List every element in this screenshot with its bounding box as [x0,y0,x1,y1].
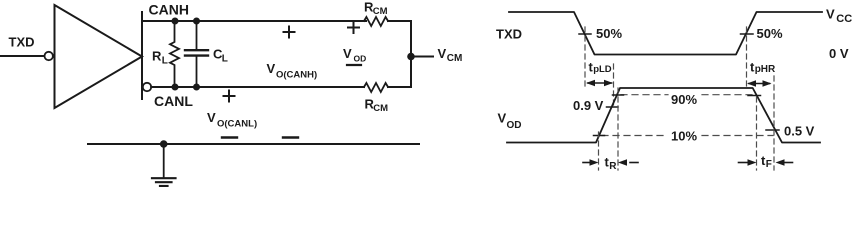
svg-text:OD: OD [507,120,522,131]
arrow t_pLD [586,80,613,86]
svg-text:90%: 90% [671,92,697,107]
dashed vertical fall 0.5V/10% [773,76,775,170]
capacitor CL [196,21,198,50]
wire CANL [151,86,364,88]
plus sign V_OD [348,22,359,33]
svg-text:pHR: pHR [755,64,776,75]
plus sign V_O(CANL) [224,91,235,102]
dashed vertical fall 90% [756,97,758,170]
svg-text:CC: CC [836,13,852,25]
CANL inversion bubble [143,83,151,91]
arrow t_F right [776,159,793,165]
svg-text:0.9 V: 0.9 V [573,98,604,113]
TXD waveform [509,12,822,55]
svg-text:R: R [152,49,162,64]
svg-text:L: L [222,54,228,65]
plus sign V_O(CANH) [284,27,295,38]
dashed vertical TXD fall 50% [584,27,586,88]
wire CANH right of RCM [388,20,411,22]
svg-text:V: V [267,61,276,76]
svg-text:R: R [609,161,617,172]
svg-text:0 V: 0 V [829,46,849,61]
wire CANL right of RCM [388,86,411,88]
junction CL bottom [193,84,200,91]
svg-text:OD: OD [354,54,367,64]
ground [152,178,176,186]
dashed 90% line [621,94,668,96]
svg-text:CM: CM [373,103,388,114]
arrow t_pHR [747,80,772,86]
svg-text:0.5 V: 0.5 V [784,124,815,139]
resistor RCM bottom [364,83,388,92]
svg-text:O(CANL): O(CANL) [217,119,257,130]
tick fall 90% [748,95,761,97]
dashed vertical rise 10% [598,132,600,170]
junction VCM node [407,53,415,61]
svg-text:10%: 10% [671,129,697,144]
V_OD waveform [507,88,820,143]
tick rise 90% [613,94,624,96]
junction ground [160,140,168,148]
tick TXD fall 50% [579,33,591,35]
svg-text:50%: 50% [757,26,783,41]
svg-text:CANL: CANL [154,93,193,109]
svg-text:F: F [766,159,772,170]
minus sign V_O(CANL) [222,136,237,138]
svg-text:TXD: TXD [496,27,522,42]
svg-text:CANH: CANH [149,1,189,17]
wire ground stem [163,144,165,178]
svg-text:pLD: pLD [593,64,612,75]
svg-text:CM: CM [447,53,463,64]
wire right bus to VCM [410,21,412,87]
minus sign V_OD [347,64,361,66]
wire VCM stub [411,56,433,58]
resistor RCM top [364,17,388,26]
arrow t_R left [583,159,599,165]
wire output bus vertical [141,12,143,99]
junction RL bottom [172,84,179,91]
svg-text:50%: 50% [596,26,622,41]
driver U1 triangle [55,5,143,108]
svg-text:V: V [207,110,216,125]
wire ground return line [88,143,419,145]
tick TXD rise 50% [741,33,754,35]
junction RL top [172,18,179,25]
svg-text:L: L [162,56,168,67]
dashed vertical TXD rise 50% [746,27,748,88]
svg-text:CM: CM [373,6,388,17]
arrow t_F left [739,159,757,165]
tick fall 0.5V [766,129,779,131]
dashed 10% line [602,135,668,137]
dashed vertical rise 90% [617,88,619,170]
svg-text:V: V [498,111,507,126]
arrow t_R right [618,159,638,165]
svg-text:O(CANH): O(CANH) [276,70,317,81]
tick rise 10% [594,135,605,137]
dashed vertical 0.9V crossing [613,64,615,107]
svg-text:TXD: TXD [9,35,35,50]
inverter input bubble [45,52,53,60]
wire CANH [142,20,366,22]
svg-text:V: V [438,46,447,61]
resistor RL [170,21,179,87]
minus sign V_O(CANH) [283,136,298,138]
svg-text:V: V [343,46,352,61]
svg-text:V: V [826,7,835,22]
tick rise 0.9V [607,106,619,108]
junction CL top [193,18,200,25]
wire TXD input [0,55,44,57]
